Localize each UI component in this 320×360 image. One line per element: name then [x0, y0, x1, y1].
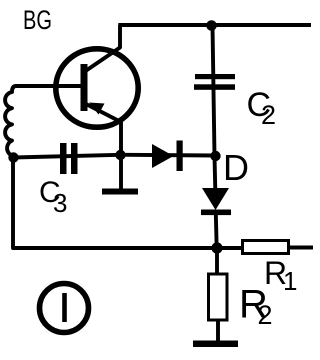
svg-text:BG: BG [23, 5, 52, 35]
svg-text:2: 2 [261, 100, 276, 130]
svg-text:D: D [223, 147, 249, 188]
svg-text:2: 2 [258, 300, 273, 330]
svg-text:3: 3 [53, 188, 67, 218]
svg-text:1: 1 [283, 266, 297, 296]
